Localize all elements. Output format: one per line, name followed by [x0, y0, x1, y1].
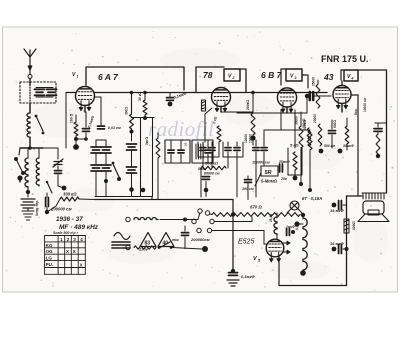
fuse triangle 83 — [140, 233, 156, 247]
resistor 330k — [307, 128, 311, 146]
selector tap 2 — [214, 221, 252, 223]
wire — [202, 157, 204, 168]
wire — [276, 213, 278, 218]
capacitor 25uF — [280, 164, 283, 172]
wire V3 cathode — [286, 107, 288, 113]
wire — [180, 140, 182, 149]
wire — [263, 157, 265, 166]
wire — [57, 166, 59, 169]
junction 16uF bottom — [332, 247, 337, 252]
wire — [131, 129, 133, 141]
resistor 30k — [143, 100, 147, 115]
wire — [76, 138, 86, 140]
capacitor G2a — [225, 148, 231, 151]
speaker magnet pole — [368, 210, 379, 215]
svg-text:30 кΩ: 30 кΩ — [138, 92, 142, 101]
svg-text:X: X — [66, 249, 69, 254]
wire V4 plate — [352, 94, 358, 96]
wire — [202, 142, 204, 146]
antenna coupling box (dashed) — [20, 82, 56, 103]
6A7 box outline — [86, 67, 184, 90]
junction — [319, 149, 324, 154]
tube cathode arrows — [281, 102, 293, 112]
capacitor G1b — [209, 148, 215, 151]
wire drop 2 — [152, 118, 154, 197]
capacitor mains — [182, 233, 189, 236]
wire — [240, 111, 253, 113]
wire — [27, 148, 29, 158]
selector tap 3 — [212, 230, 265, 232]
wire — [47, 206, 56, 212]
resistor tone — [376, 134, 380, 154]
wire coil to node — [29, 138, 31, 148]
mains plug top — [126, 217, 130, 221]
wire — [169, 93, 171, 97]
wire — [85, 112, 87, 127]
junction — [84, 137, 88, 141]
svg-text:5-МомΩ: 5-МомΩ — [261, 179, 278, 184]
main HT bus — [95, 92, 328, 94]
contact — [158, 246, 161, 249]
cap group 1 frame — [198, 142, 219, 157]
switch blade IFT1 — [113, 164, 119, 177]
junction lamp tap — [294, 221, 299, 226]
junction — [168, 102, 173, 107]
svg-text:1: 1 — [77, 75, 79, 79]
wire — [131, 190, 133, 197]
wire — [207, 140, 209, 149]
wire coupler to coil — [29, 103, 31, 113]
resistor bias — [345, 126, 349, 144]
mains plug bottom — [126, 245, 130, 249]
wire — [95, 153, 97, 164]
wire — [251, 217, 253, 222]
mains top wire — [160, 219, 185, 221]
wire — [184, 247, 186, 250]
wire — [341, 70, 344, 80]
wire — [264, 243, 267, 245]
wire — [46, 193, 48, 197]
tap junction — [231, 212, 235, 216]
svg-text:25000: 25000 — [312, 77, 316, 86]
IFT2 box 1 — [165, 140, 190, 163]
IFT1 mica capacitor C — [91, 165, 101, 171]
svg-text:16 мкФ: 16 мкФ — [330, 241, 345, 246]
wire — [263, 130, 265, 142]
wave change switch S2 — [15, 148, 25, 174]
bottom return wire — [279, 285, 347, 287]
capacitor 0.1uF V5 — [229, 273, 238, 276]
tone capacitor — [374, 129, 382, 132]
capacitor 600 — [329, 131, 336, 134]
junction — [129, 187, 134, 192]
coupler top rail — [36, 87, 53, 89]
capacitor under IFT2 — [203, 177, 210, 180]
wire — [185, 219, 198, 221]
wire — [252, 135, 254, 145]
selector terminal 2a — [192, 219, 196, 223]
padding capacitor C3 — [46, 198, 49, 207]
wire — [38, 148, 40, 158]
wire — [170, 154, 172, 163]
capacitor 0.1uF screen — [167, 98, 174, 101]
wire — [29, 76, 31, 85]
wire — [56, 199, 60, 206]
electrolytic capacitor V2 left — [202, 100, 206, 111]
wire — [95, 140, 97, 146]
wire V1 grid left — [66, 92, 76, 94]
oscillator coil L2 — [25, 158, 28, 188]
junction — [305, 94, 309, 98]
wire V3 grid down — [280, 110, 282, 130]
IFT2 cap 1a — [168, 150, 174, 153]
wire — [205, 181, 207, 188]
wire — [94, 96, 101, 98]
chassis bus — [95, 199, 233, 201]
node A (tuner) — [28, 146, 32, 150]
svg-text:200кΩ: 200кΩ — [246, 100, 250, 110]
ground (antenna section) — [22, 208, 34, 220]
resistor 100R — [74, 122, 78, 136]
tube V2 78 — [212, 88, 231, 107]
wire — [377, 123, 379, 127]
wire V4 stem — [341, 81, 343, 86]
wire — [343, 204, 347, 206]
wire — [343, 248, 347, 250]
wire V3 box left — [281, 69, 286, 85]
svg-text:ткг: ткг — [172, 238, 179, 242]
junction — [141, 188, 146, 193]
wire — [247, 183, 249, 188]
wire — [184, 226, 186, 231]
capacitor 0.1uF V1 — [83, 129, 90, 132]
svg-text:330кΩ: 330кΩ — [302, 118, 306, 128]
V5 anode arrows — [283, 241, 290, 254]
secondary bus — [95, 196, 152, 198]
wire — [227, 157, 229, 168]
wire AVC line — [264, 129, 310, 131]
wire right riser — [346, 196, 348, 286]
tube cathode arrows — [270, 252, 281, 261]
wire — [57, 148, 59, 159]
IFT2 box 2 — [192, 140, 213, 163]
paper speckles (noise) — [6, 31, 395, 291]
wire — [252, 93, 254, 105]
junction bus — [251, 91, 255, 95]
selector terminal 1a — [198, 209, 202, 213]
junction bottom — [300, 270, 306, 276]
wire — [301, 212, 303, 215]
wire — [227, 142, 229, 146]
wire — [207, 154, 209, 163]
tube V5 E525 — [266, 239, 284, 257]
wire — [79, 198, 95, 201]
IFT1 mica capacitor B — [101, 147, 111, 153]
switch contact — [35, 115, 38, 118]
svg-text:бар.: бар. — [354, 108, 358, 115]
wire drop 1 — [140, 118, 142, 197]
wire — [255, 140, 257, 146]
antenna lead dotted — [29, 82, 31, 103]
wire lamp right lead — [298, 209, 301, 213]
svg-text:100 Ω: 100 Ω — [70, 113, 74, 123]
78 box outline left — [196, 67, 224, 92]
wire — [58, 186, 64, 188]
wire — [317, 80, 319, 84]
capacitor 0.01 — [98, 126, 105, 129]
junction gang — [62, 186, 67, 191]
svg-text:500 см: 500 см — [324, 144, 335, 148]
wire V5 grid — [263, 231, 265, 245]
wire — [264, 129, 281, 131]
svg-text:KG: KG — [46, 243, 53, 248]
tube V4 43 — [333, 86, 351, 104]
wire — [151, 197, 153, 200]
tuning capacitor C1a — [53, 159, 63, 167]
IFT2 cap 1b — [178, 150, 184, 153]
wire tone network top — [375, 122, 387, 124]
dial lamp — [290, 201, 299, 210]
wire V4 cathode — [341, 104, 343, 113]
svg-text:80000 см: 80000 см — [204, 172, 220, 176]
wire — [302, 273, 304, 286]
capacitor G3b — [261, 148, 267, 151]
wire — [221, 111, 240, 113]
svg-text:600Ω: 600Ω — [333, 120, 337, 128]
svg-text:МF · 489 кHz: МF · 489 кHz — [59, 224, 99, 231]
svg-text:FNR 175 U.: FNR 175 U. — [321, 54, 369, 64]
wire — [276, 234, 278, 240]
resistor 25000 — [316, 84, 320, 108]
svg-text:16 мкФ: 16 мкФ — [330, 208, 345, 213]
junction — [299, 182, 303, 186]
svg-text:1936 - 37: 1936 - 37 — [56, 216, 83, 223]
wire — [75, 136, 77, 144]
mica capacitor mid B — [127, 167, 137, 173]
junction 16uF top — [332, 203, 337, 208]
wire node A horizontal — [20, 147, 43, 149]
svg-text:Scale 500 c̸ p r: Scale 500 c̸ p r — [53, 231, 79, 235]
svg-text:Конд. пер.: Конд. пер. — [35, 200, 39, 216]
svg-text:20000: 20000 — [313, 114, 317, 123]
wire — [144, 93, 146, 101]
wire — [346, 118, 348, 126]
wire — [184, 220, 186, 227]
mica capacitor C2 — [21, 199, 35, 208]
wire to ballast — [210, 213, 213, 216]
junction — [204, 188, 209, 193]
svg-text:200000см: 200000см — [190, 237, 210, 242]
tube cathode arrows — [79, 101, 91, 111]
junction — [345, 247, 349, 251]
wire — [27, 188, 29, 194]
wire lamp left lead — [287, 209, 291, 214]
wire — [211, 152, 213, 157]
junction L2 bottom — [26, 190, 30, 194]
filter resistor — [344, 219, 349, 233]
padder capacitor — [55, 171, 62, 174]
coupling capacitor — [310, 92, 313, 100]
svg-text:30000: 30000 — [295, 116, 299, 125]
potentiometer 5R box — [261, 166, 278, 176]
contact — [112, 162, 115, 165]
wire — [255, 157, 257, 197]
wire — [19, 178, 21, 182]
capacitor G3a — [253, 148, 259, 151]
capacitor 16uF top — [339, 201, 342, 210]
junction — [183, 218, 187, 222]
wire V3 box right — [302, 75, 308, 88]
svg-text:6 A 7: 6 A 7 — [98, 72, 119, 82]
wire — [144, 115, 146, 118]
wire — [306, 98, 308, 113]
svg-text:10мкФ: 10мкФ — [343, 144, 354, 148]
svg-text:0,1мкФ: 0,1мкФ — [241, 274, 256, 279]
wire — [205, 163, 207, 175]
fuse triangle 40 — [158, 233, 174, 247]
5k frame — [288, 148, 302, 175]
switch contact — [42, 132, 45, 135]
antenna — [24, 49, 36, 74]
resistor 5k — [293, 152, 297, 170]
svg-text:10000: 10000 — [244, 134, 248, 143]
wire IFT1 top — [96, 139, 106, 141]
V3 designator box — [286, 69, 302, 81]
fuse coil — [134, 218, 158, 220]
svg-text:2: 2 — [232, 76, 235, 80]
wire to big junction — [172, 248, 202, 250]
junction bus 131 — [130, 91, 134, 95]
wire — [302, 213, 304, 219]
junction tone — [376, 154, 380, 158]
svg-text:300Ω: 300Ω — [125, 107, 129, 115]
junction — [45, 210, 49, 214]
wire — [236, 113, 238, 142]
svg-text:4: 4 — [351, 77, 354, 81]
wire V2 cathode — [220, 107, 222, 113]
wire — [236, 168, 238, 197]
resistor 300k — [60, 197, 79, 201]
wire — [85, 133, 87, 139]
wire — [180, 154, 182, 163]
resistor 300R — [130, 114, 134, 129]
wire — [200, 168, 202, 197]
svg-text:670 Ω: 670 Ω — [250, 205, 262, 210]
junction 200k — [250, 135, 255, 140]
wire — [346, 144, 348, 150]
wire — [211, 157, 213, 168]
wire — [46, 207, 48, 211]
wire — [384, 192, 387, 194]
wire — [105, 171, 107, 180]
svg-text:10: 10 — [184, 142, 188, 146]
wire V1 cathode down — [84, 106, 86, 113]
junction — [293, 176, 298, 181]
wire down left — [65, 93, 67, 149]
wire — [297, 223, 303, 225]
coupler mica capacitor A — [35, 89, 45, 95]
wire — [314, 95, 331, 97]
svg-text:300 кΩ: 300 кΩ — [63, 192, 77, 197]
V2 designator box — [224, 69, 240, 81]
capacitor 100cm — [245, 180, 252, 183]
wire grid line — [237, 112, 307, 114]
wire — [236, 142, 238, 146]
wire — [247, 188, 249, 200]
junction — [231, 269, 235, 273]
speaker body — [363, 201, 384, 214]
junction — [143, 116, 147, 120]
wire — [263, 142, 265, 146]
junction bus 145 — [143, 91, 147, 95]
mica capacitor mid A — [127, 144, 137, 150]
transformer top bar — [362, 192, 384, 194]
svg-text:OG: OG — [46, 249, 54, 254]
scan blotches — [30, 48, 388, 280]
contact — [170, 246, 173, 249]
wire — [331, 120, 333, 129]
resistor 2k — [217, 126, 221, 142]
wire — [205, 190, 207, 197]
junction switch bottom — [17, 175, 22, 180]
wire to selector — [198, 213, 200, 220]
wire AVC header — [132, 117, 155, 119]
wire — [205, 108, 212, 114]
resistor mains lower — [134, 246, 156, 249]
wire — [247, 176, 249, 179]
svg-text:6Т · 0,15А: 6Т · 0,15А — [302, 196, 322, 201]
svg-text:10000: 10000 — [249, 134, 253, 143]
svg-text:5R: 5R — [265, 170, 272, 176]
IFT1 mica capacitor D — [101, 165, 111, 171]
coupling winding L3 — [36, 158, 39, 186]
capacitor G1a — [200, 148, 206, 151]
svg-text:6 B 7: 6 B 7 — [261, 70, 283, 80]
selector terminal 2b — [210, 219, 214, 223]
wire — [132, 132, 159, 134]
wire — [331, 135, 333, 148]
svg-text:25мкФ: 25мкФ — [278, 160, 290, 164]
wire — [255, 152, 257, 157]
resistor 30000 — [299, 126, 303, 148]
selector terminal 3b — [207, 228, 211, 232]
wire — [59, 148, 61, 199]
wire — [157, 158, 159, 200]
pot wiper arrow — [255, 173, 261, 186]
capacitor 16uF bottom — [339, 245, 342, 254]
junction big — [202, 246, 208, 252]
svg-text:3: 3 — [295, 76, 297, 80]
wire — [170, 140, 172, 149]
band table — [45, 236, 86, 275]
78 box outline right — [240, 69, 246, 92]
junction — [291, 230, 295, 234]
junction — [74, 137, 78, 141]
svg-text:25,4в: 25,4в — [269, 214, 273, 222]
wire — [105, 181, 107, 197]
wire — [202, 152, 204, 157]
wire — [263, 152, 265, 157]
wire — [75, 115, 77, 122]
IFT1 mica capacitor A — [91, 147, 101, 153]
svg-text:LG: LG — [46, 255, 53, 260]
junction — [338, 149, 343, 154]
V5 heater winding — [274, 217, 277, 235]
wire — [309, 150, 311, 190]
coupler bottom rail — [36, 96, 53, 98]
svg-text:6,3в: 6,3в — [295, 224, 299, 230]
contact — [117, 177, 121, 181]
